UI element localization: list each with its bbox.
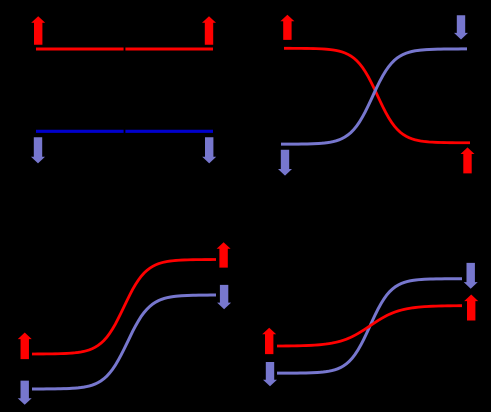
- spin-down arrow bottom-left (top-right panel): [278, 150, 292, 176]
- spin-down arrow right (bottom-right panel): [464, 263, 478, 289]
- spin-up arrow left (bottom-left panel): [18, 333, 32, 360]
- spin-down arrow left (top-left panel): [31, 137, 45, 163]
- red gentle rising curve (bottom-right panel): [277, 306, 462, 346]
- spin-up arrow right (top-left panel): [202, 16, 216, 45]
- spin-up arrow left (top-left panel): [31, 16, 45, 45]
- blue steep rising curve (bottom-right panel): [277, 279, 462, 373]
- spin-up arrow right (bottom-right panel): [464, 295, 478, 321]
- spin-up arrow top-left (top-right panel): [280, 15, 294, 40]
- red rising adiabatic curve (bottom-left panel): [32, 260, 216, 354]
- spin-down arrow left (bottom-left panel): [18, 381, 32, 405]
- spin-down arrow right (top-left panel): [202, 137, 216, 163]
- red descending diabatic curve (top-right panel): [284, 48, 470, 142]
- blue ascending diabatic curve (top-right panel): [281, 49, 467, 144]
- blue rising adiabatic curve (bottom-left panel): [32, 295, 216, 389]
- spin-up arrow left (bottom-right panel): [262, 328, 276, 354]
- spin-down energy level line (top-left panel): [36, 130, 213, 133]
- spin-up energy level line (top-left panel): [36, 48, 213, 51]
- spin-down arrow left (bottom-right panel): [263, 362, 277, 386]
- spin-down arrow top-right (top-right panel): [454, 15, 468, 39]
- spin-down arrow right (bottom-left panel): [217, 285, 231, 309]
- spin-up arrow bottom-right (top-right panel): [461, 147, 475, 173]
- spin-up arrow right (bottom-left panel): [217, 242, 231, 267]
